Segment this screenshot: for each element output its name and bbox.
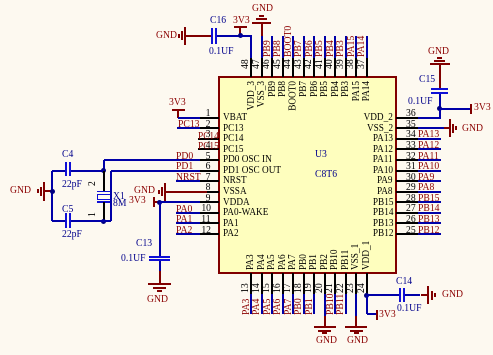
power 3V3 P3 (pin 1) xyxy=(169,97,186,108)
C15 value 0.1UF xyxy=(408,96,432,107)
pin 13 PA3 stub xyxy=(250,273,252,294)
pin 43 number xyxy=(293,59,304,69)
pin 17 name PA7 xyxy=(287,255,298,271)
wire net PB11 to pin 22 xyxy=(345,294,347,314)
C4 designator xyxy=(62,149,73,160)
wire G7 to left rail xyxy=(44,190,52,192)
pin 5 PD0 OSC IN stub xyxy=(198,159,219,161)
wire C14 to G10 xyxy=(405,294,420,296)
wire G2 to pin 47 xyxy=(261,36,263,58)
X1 designator xyxy=(113,191,125,202)
wire node B to 3V3 xyxy=(440,108,470,110)
pin 48 number xyxy=(240,59,251,69)
net label PB1 xyxy=(304,298,315,315)
pin 13 name PA3 xyxy=(245,255,256,271)
pin 31 name PA10 xyxy=(373,165,393,176)
pin 1 number xyxy=(206,108,211,119)
pin 30 number xyxy=(406,172,416,183)
wire net PC13 to pin 2 xyxy=(177,127,200,129)
pin 27 number xyxy=(406,203,416,214)
wire C13 to G6 xyxy=(159,261,161,271)
wire net PB14 to pin 27 xyxy=(418,212,441,214)
pin 34 name PA13 xyxy=(373,133,393,144)
ground G1 (left of C16) xyxy=(156,30,177,41)
crystal X1 pin 1 number xyxy=(87,212,98,217)
wire 3V3 to pin 1 xyxy=(178,117,200,119)
wire PD1 down to C5 rail xyxy=(110,171,112,222)
pin 14 PA4 stub xyxy=(261,273,263,294)
pin 35 number xyxy=(406,119,416,130)
ground G3 (above C15) xyxy=(428,46,449,57)
pin 2 name PC13 xyxy=(223,123,244,134)
C13 value 0.1UF xyxy=(121,253,145,264)
power 3V3 P4 (pin 9) xyxy=(129,195,146,206)
net label PB8 xyxy=(272,40,283,57)
pin 22 PB11 stub xyxy=(345,273,347,294)
pin 32 number xyxy=(406,151,416,162)
wire net PA1 to pin 11 xyxy=(176,222,201,224)
pin 29 number xyxy=(406,182,416,193)
pin 18 PB0 stub xyxy=(303,273,305,294)
node D junction (C4/crystal/PD0) xyxy=(101,168,106,173)
net label PB15 xyxy=(418,193,440,204)
node E junction (C5/crystal/PD1) xyxy=(101,219,106,224)
pin 27 PB14 stub xyxy=(396,212,417,214)
ground G8 (pin 20) xyxy=(324,316,326,328)
C14 designator xyxy=(396,276,412,287)
pin 26 number xyxy=(406,214,416,225)
pin 42 name PB6 xyxy=(309,81,320,97)
wire net PB6 to pin 42 xyxy=(313,36,315,58)
pin 11 number xyxy=(201,214,210,225)
pin 7 NRST stub xyxy=(198,180,219,182)
pin 39 name PB3 xyxy=(340,81,351,97)
net label PC15 (pin 4) xyxy=(198,141,219,152)
pin 47 name VSS_3 xyxy=(256,81,267,107)
U3 value C8T6 xyxy=(315,169,337,180)
net label BOOT0 xyxy=(283,25,294,56)
pin 37 PA14 stub xyxy=(366,57,368,77)
power 3V3 P2 (right) xyxy=(470,104,472,114)
wire net PA14 to pin 37 xyxy=(366,36,368,58)
pin 22 number xyxy=(335,283,346,293)
X1 value 8M xyxy=(113,198,126,209)
pin 12 name PA2 xyxy=(223,228,239,239)
ground G2 (top, pin 47) xyxy=(252,3,273,14)
pin 47 VSS_3 stub xyxy=(261,57,263,77)
pin 9 name VDDA xyxy=(223,197,250,208)
pin 44 number xyxy=(282,59,293,69)
pin 10 name PA0-WAKE xyxy=(223,207,268,218)
wire net PA6 to pin 16 xyxy=(282,294,284,314)
pin 20 PB2 stub xyxy=(324,273,326,294)
wire net PB10 to pin 21 xyxy=(334,294,336,314)
net label PA1 xyxy=(176,214,192,225)
ground G6 (below C13) xyxy=(159,271,161,284)
pin 18 number xyxy=(293,283,304,293)
pin 43 PB7 stub xyxy=(303,57,305,77)
wire net PA9 to pin 30 xyxy=(418,180,441,182)
pin 35 VSS_2 stub xyxy=(396,127,417,129)
pin 16 number xyxy=(272,283,283,293)
pin 39 number xyxy=(335,59,346,69)
pin 4 number xyxy=(206,140,211,151)
pin 32 PA11 stub xyxy=(396,159,417,161)
net label PA11 xyxy=(418,151,439,162)
ground G5 (pin 8) xyxy=(134,185,155,196)
pin 11 name PA1 xyxy=(223,218,239,229)
pin 8 VSSA stub xyxy=(198,191,219,193)
net label PD1 xyxy=(176,161,193,172)
pin 13 number xyxy=(240,283,251,293)
wire net PB13 to pin 26 xyxy=(418,222,441,224)
wire net PA15 to pin 38 xyxy=(355,36,357,58)
wire net PB7 to pin 43 xyxy=(303,36,305,58)
wire net PB4 to pin 40 xyxy=(334,36,336,58)
node G junction (pin 24) xyxy=(364,293,369,298)
wire pin 20 to G8 xyxy=(324,294,326,316)
pin 26 name PB13 xyxy=(372,218,393,229)
wire net NRST to pin 7 xyxy=(176,180,201,182)
power 3V3 P1 (top) xyxy=(233,15,250,26)
wire net PD1 to pin 6 xyxy=(111,170,200,172)
wire left rail C4-C5 xyxy=(51,171,53,222)
wire net PA13 to pin 34 xyxy=(418,138,441,140)
net label PA12 xyxy=(418,140,439,151)
pin 24 name VDD_1 xyxy=(361,241,372,270)
pin 42 number xyxy=(303,59,314,69)
wire net PA0 to pin 10 xyxy=(176,212,201,214)
pin 31 number xyxy=(406,161,416,172)
pin 34 PA13 stub xyxy=(396,138,417,140)
wire net PD0 to pin 5 xyxy=(104,159,200,161)
capacitor C15 xyxy=(431,88,449,90)
wire net PA7 to pin 17 xyxy=(292,294,294,314)
net label PA14 xyxy=(356,35,367,56)
net label PD0 xyxy=(176,151,193,162)
pin 18 name PB0 xyxy=(298,254,309,270)
pin 4 name PC15 xyxy=(223,144,244,155)
node B junction xyxy=(437,106,442,111)
wire net PB8 to pin 45 xyxy=(282,36,284,58)
wire G1 to C16 xyxy=(185,35,210,37)
pin 2 PC13 stub xyxy=(198,127,219,129)
ground G4 (pin 35) xyxy=(444,127,449,129)
pin 5 number xyxy=(206,151,211,162)
wire C15 to node B xyxy=(439,94,441,108)
wire net PA8 to pin 29 xyxy=(418,191,441,193)
op-amp U3 body (MCU C8T6 rectangle) xyxy=(218,76,398,274)
pin 28 PB15 stub xyxy=(396,201,417,203)
pin 27 name PB14 xyxy=(372,207,393,218)
wire net PB9 to pin 46 xyxy=(271,36,273,58)
capacitor C5 xyxy=(65,213,67,228)
pin 34 number xyxy=(406,129,416,140)
pin 10 number xyxy=(201,203,211,214)
pin 23 number xyxy=(345,283,356,293)
pin 35 name VSS_2 xyxy=(367,123,393,134)
U3 designator xyxy=(315,149,327,160)
pin 10 PA0-WAKE stub xyxy=(198,212,219,214)
node C junction xyxy=(157,200,162,205)
pin 28 number xyxy=(406,193,416,204)
pin 42 PB6 stub xyxy=(313,57,315,77)
C5 value 22pF xyxy=(62,229,82,240)
pin 4 PC15 stub xyxy=(198,148,219,150)
pin 23 VSS_1 stub xyxy=(355,273,357,294)
pin 38 name PA15 xyxy=(351,81,362,101)
net label PB11 xyxy=(335,294,346,315)
C16 designator xyxy=(210,15,226,26)
net label PB3 xyxy=(335,40,346,57)
pin 6 name PD1 OSC OUT xyxy=(223,165,281,176)
pin 40 name PB4 xyxy=(330,81,341,97)
wire net PA12 to pin 33 xyxy=(418,148,441,150)
node F junction (GND tap) xyxy=(50,189,55,194)
pin 28 name PB15 xyxy=(372,197,393,208)
pin 33 PA12 stub xyxy=(396,148,417,150)
pin 30 name PA9 xyxy=(377,175,393,186)
pin 15 number xyxy=(261,283,272,293)
power 3V3 P5 (bottom) xyxy=(376,310,378,320)
pin 25 PB12 stub xyxy=(396,233,417,235)
net label PB14 xyxy=(418,203,440,214)
pin 15 PA5 stub xyxy=(271,273,273,294)
wire node B to pin 36 xyxy=(439,109,441,118)
pin 33 number xyxy=(406,140,416,151)
wire C4 rail xyxy=(52,170,65,172)
net label PA0 xyxy=(176,204,192,215)
wire net PB3 to pin 39 xyxy=(345,36,347,58)
wire node C to C13 xyxy=(159,202,161,256)
pin 8 name VSSA xyxy=(223,186,247,197)
wire pin 24 down to 3V3 xyxy=(366,295,368,314)
pin 9 VDDA stub xyxy=(198,201,219,203)
capacitor C14 xyxy=(399,288,401,302)
pin 9 number xyxy=(206,193,211,204)
pin 20 name PB2 xyxy=(319,254,330,270)
pin 2 number xyxy=(206,119,211,130)
pin 41 name PB5 xyxy=(319,81,330,97)
net label PB5 xyxy=(314,40,325,57)
net label PC13 xyxy=(178,119,200,130)
net label PA5 xyxy=(262,299,273,315)
pin 40 number xyxy=(324,59,335,69)
net label PB4 xyxy=(325,40,336,57)
wire G5 to pin 8 xyxy=(165,191,208,193)
wire net PA2 to pin 12 xyxy=(176,233,201,235)
wire PD0 down to crystal xyxy=(103,160,105,171)
capacitor C4 xyxy=(65,162,67,176)
wire C16 to node A xyxy=(217,35,241,37)
pin 24 number xyxy=(356,283,367,293)
pin 24 VDD_1 stub xyxy=(366,273,368,294)
pin 46 name PB9 xyxy=(267,81,278,97)
net label PA3 xyxy=(241,299,252,315)
net label PB7 xyxy=(293,40,304,57)
pin 36 number xyxy=(406,108,416,119)
pin 31 PA10 stub xyxy=(396,170,417,172)
capacitor C16 xyxy=(211,28,213,44)
wire node A to pin 48 xyxy=(240,35,252,37)
wire net PA4 to pin 14 xyxy=(261,294,263,314)
pin 36 VDD_2 stub xyxy=(396,117,417,119)
pin 40 PB4 stub xyxy=(334,57,336,77)
crystal X1 upper lead xyxy=(103,171,105,192)
pin 8 number xyxy=(206,182,211,193)
pin 30 PA9 stub xyxy=(396,180,417,182)
net label PA13 xyxy=(418,129,439,140)
net label PA9 xyxy=(418,172,434,183)
pin 6 number xyxy=(206,161,211,172)
net label PA2 xyxy=(176,225,192,236)
C16 value 0.1UF xyxy=(209,46,233,57)
net label PA8 xyxy=(418,182,434,193)
pin 38 number xyxy=(345,59,356,69)
pin 48 name VDD_3 xyxy=(246,81,257,110)
wire net PB12 to pin 25 xyxy=(418,233,441,235)
pin 37 name PA14 xyxy=(361,81,372,101)
pin 33 name PA12 xyxy=(373,144,393,155)
pin 1 name VBAT xyxy=(223,112,247,123)
C15 designator xyxy=(419,74,435,85)
pin 25 name PB12 xyxy=(372,228,393,239)
wire net PA10 to pin 31 xyxy=(418,170,441,172)
pin 15 name PA5 xyxy=(266,255,277,271)
wire net PA11 to pin 32 xyxy=(418,159,441,161)
pin 41 PB5 stub xyxy=(324,57,326,77)
pin 16 name PA6 xyxy=(277,255,288,271)
net label PC14 (pin 3) xyxy=(198,131,219,142)
net label PB13 xyxy=(418,214,440,225)
pin 1 VBAT stub xyxy=(198,117,219,119)
pin 32 name PA11 xyxy=(373,154,393,165)
capacitor C13 xyxy=(149,256,170,258)
pin 23 name VSS_1 xyxy=(350,244,361,270)
pin 20 number xyxy=(314,283,325,293)
pin 46 PB9 stub xyxy=(271,57,273,77)
C4 value 22pF xyxy=(62,179,82,190)
C13 designator xyxy=(136,238,152,249)
pin 38 PA15 stub xyxy=(355,57,357,77)
pin 29 PA8 stub xyxy=(396,191,417,193)
C14 value 0.1UF xyxy=(397,303,421,314)
wire pin 24 to C14 xyxy=(367,294,399,296)
pin 17 PA7 stub xyxy=(292,273,294,294)
wire pin 35 to G4 xyxy=(418,127,444,129)
pin 46 number xyxy=(261,59,272,69)
pin 7 name NRST xyxy=(223,175,247,186)
pin 14 name PA4 xyxy=(256,255,267,271)
pin 45 PB8 stub xyxy=(282,57,284,77)
pin 39 PB3 stub xyxy=(345,57,347,77)
pin 7 number xyxy=(206,172,211,183)
net label PA10 xyxy=(418,161,439,172)
pin 36 name VDD_2 xyxy=(364,112,393,123)
pin 12 PA2 stub xyxy=(198,233,219,235)
wire net PB5 to pin 41 xyxy=(324,36,326,58)
wire pin 23 to G9 xyxy=(355,294,357,316)
pin 21 name PB10 xyxy=(329,250,340,271)
pin 44 BOOT0 stub xyxy=(292,57,294,77)
node A junction xyxy=(238,33,243,38)
net label PB9 xyxy=(262,40,273,57)
crystal X1 pin 2 number xyxy=(87,181,98,186)
pin 22 name PB11 xyxy=(340,250,351,270)
pin 16 PA6 stub xyxy=(282,273,284,294)
pin 44 name BOOT0 xyxy=(288,81,299,111)
net label NRST xyxy=(176,172,201,183)
crystal X1 lower lead xyxy=(103,202,105,221)
pin 3 name PC14 xyxy=(223,133,244,144)
net label PA15 xyxy=(346,35,357,56)
net label PB0 xyxy=(293,298,304,315)
pin 19 name PB1 xyxy=(308,254,319,270)
ground G7 (crystal) xyxy=(10,185,31,196)
pin 19 PB1 stub xyxy=(313,273,315,294)
wire net BOOT0 to pin 44 xyxy=(292,36,294,58)
wire net PA5 to pin 15 xyxy=(271,294,273,314)
wire net PB0 to pin 18 xyxy=(303,294,305,314)
ground G10 (right of C14) xyxy=(421,294,429,296)
pin 47 number xyxy=(251,59,262,69)
net label PA4 xyxy=(251,299,262,315)
C5 designator xyxy=(62,204,73,215)
pin 48 VDD_3 stub xyxy=(250,57,252,77)
wire net PA3 to pin 13 xyxy=(250,294,252,314)
pin 29 name PA8 xyxy=(377,186,393,197)
pin 37 number xyxy=(356,59,367,69)
wire net PB15 to pin 28 xyxy=(418,201,441,203)
pin 45 number xyxy=(272,59,283,69)
pin 12 number xyxy=(201,225,211,236)
pin 21 number xyxy=(324,283,335,293)
crystal X1 symbol xyxy=(97,191,111,193)
pin 41 number xyxy=(314,59,325,69)
net label PB10 xyxy=(325,294,336,316)
net label PB6 xyxy=(304,40,315,57)
pin 43 name PB7 xyxy=(298,81,309,97)
net label PA7 xyxy=(283,299,294,315)
pin 11 PA1 stub xyxy=(198,222,219,224)
pin 3 number xyxy=(206,129,211,140)
pin 25 number xyxy=(406,225,416,236)
wire node C to pin 9 xyxy=(160,201,201,203)
pin 19 number xyxy=(303,283,314,293)
net label PB12 xyxy=(418,225,440,236)
wire net PB1 to pin 19 xyxy=(313,294,315,314)
pin 14 number xyxy=(251,283,262,293)
pin 6 PD1 OSC OUT stub xyxy=(198,170,219,172)
net label PA6 xyxy=(272,299,283,315)
pin 26 PB13 stub xyxy=(396,222,417,224)
wire C5 rail xyxy=(52,220,65,222)
pin 17 number xyxy=(282,283,293,293)
pin 5 name PD0 OSC IN xyxy=(223,154,272,165)
pin 3 PC14 stub xyxy=(198,138,219,140)
pin 21 PB10 stub xyxy=(334,273,336,294)
ground G9 (pin 23) xyxy=(355,316,357,328)
pin 45 name PB8 xyxy=(277,81,288,97)
